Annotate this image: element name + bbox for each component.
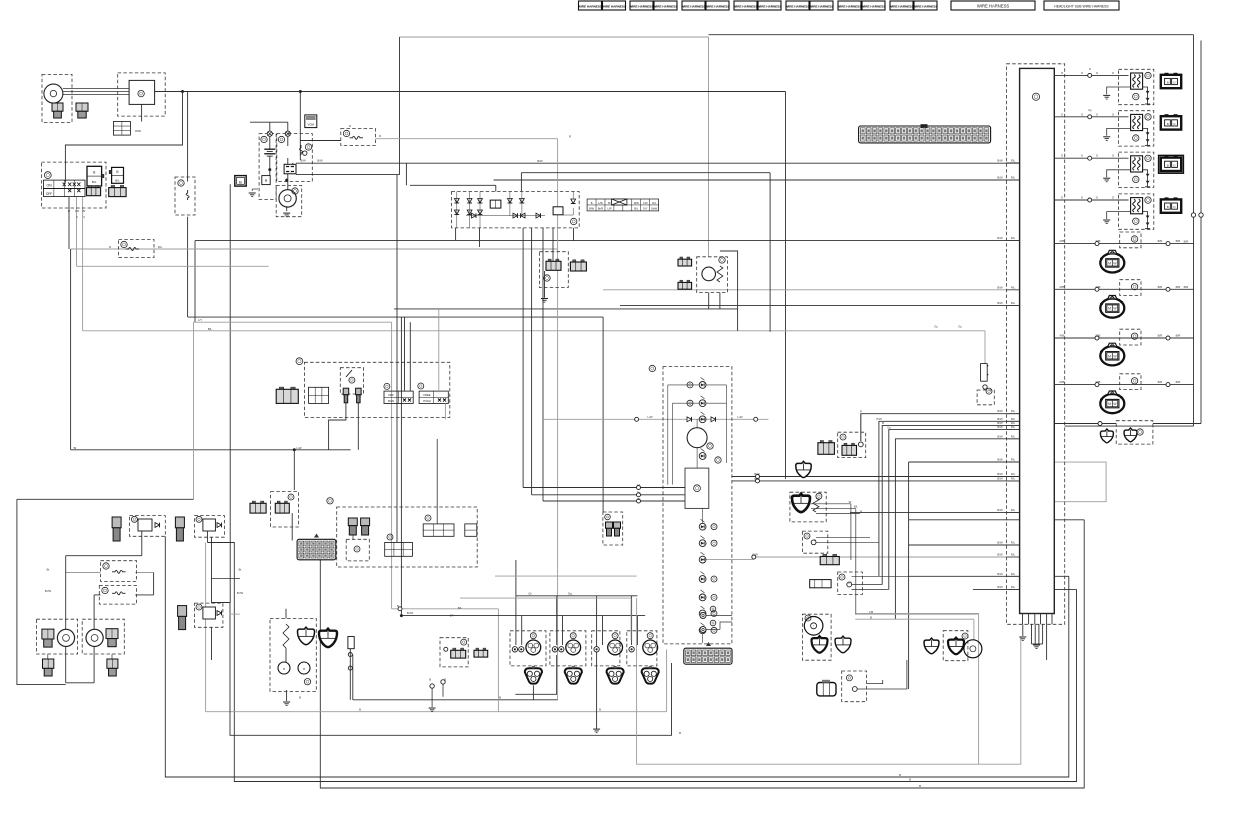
svg-text:B: B [899,773,901,777]
svg-text:L/R: L/R [75,209,79,213]
svg-text:Br/W: Br/W [45,589,52,593]
svg-text:L/W: L/W [648,415,653,419]
svg-text:B: B [860,510,862,514]
svg-text:OFF: OFF [388,393,394,397]
svg-text:R/L: R/L [158,245,163,249]
svg-text:B/W: B/W [997,585,1003,589]
svg-text:B/W: B/W [997,541,1003,545]
svg-text:B/W: B/W [997,472,1003,476]
svg-text:M: M [1108,307,1111,311]
svg-text:B/W: B/W [317,159,323,163]
svg-text:L/W: L/W [738,415,743,419]
svg-text:B/W: B/W [997,434,1003,438]
svg-text:B/R: B/R [1158,239,1163,243]
svg-text:FREE: FREE [424,393,431,397]
svg-text:Gy: Gy [1088,108,1092,112]
svg-text:WIRE HARNESS: WIRE HARNESS [785,4,809,8]
svg-text:R: R [68,209,70,213]
svg-text:R/B: R/B [1060,380,1065,384]
svg-text:B: B [679,731,681,735]
svg-text:B/R: B/R [1184,240,1189,244]
svg-text:B/L: B/L [115,179,120,183]
svg-text:B/R: B/R [1176,239,1181,243]
svg-text:R/L: R/L [1011,434,1016,438]
svg-text:WIRE HARNESS: WIRE HARNESS [653,4,677,8]
svg-text:R/L: R/L [1011,176,1016,180]
svg-text:R/L: R/L [1011,476,1016,480]
svg-text:Br/W: Br/W [407,611,414,615]
svg-text:WIRE HARNESS: WIRE HARNESS [837,4,861,8]
svg-text:B/R: B/R [1158,285,1163,289]
svg-text:B/L: B/L [854,505,859,509]
svg-text:B: B [591,201,593,205]
svg-text:B/W: B/W [589,207,594,211]
svg-text:R: R [379,134,381,138]
svg-text:WIRE HARNESS: WIRE HARNESS [861,4,885,8]
svg-text:B: B [429,678,431,682]
svg-text:L/W: L/W [598,201,603,205]
svg-text:B: B [1167,205,1169,209]
svg-text:W: W [849,500,852,504]
svg-text:G/W: G/W [752,553,758,557]
svg-text:M: M [1108,354,1111,358]
svg-text:WIRE HARNESS: WIRE HARNESS [602,4,626,8]
svg-text:B: B [116,170,118,174]
svg-text:VOM: VOM [308,123,315,127]
svg-text:R/L: R/L [1011,472,1016,476]
svg-text:WIRE HARNESS: WIRE HARNESS [629,4,653,8]
svg-text:R/B: R/B [1096,334,1101,338]
svg-text:R: R [349,124,351,128]
svg-text:Dg: Dg [637,491,641,495]
svg-text:WIRE HARNESS: WIRE HARNESS [757,4,781,8]
svg-text:ON: ON [46,184,52,188]
svg-text:OFF: OFF [46,192,52,196]
svg-text:Br: Br [74,446,77,450]
svg-text:WIRE HARNESS: WIRE HARNESS [977,4,1010,9]
svg-text:L/R: L/R [607,207,611,211]
svg-text:B: B [299,696,301,700]
svg-text:R/L: R/L [1011,572,1016,576]
svg-text:WIRE HARNESS: WIRE HARNESS [681,4,705,8]
svg-text:Gy: Gy [958,325,962,329]
svg-text:B/L: B/L [458,606,463,610]
svg-text:WIRE HARNESS: WIRE HARNESS [913,4,937,8]
svg-text:Ch: Ch [637,483,641,487]
svg-text:L/B: L/B [869,610,873,614]
svg-text:B/L: B/L [208,327,213,331]
svg-text:R/B: R/B [1060,334,1065,338]
svg-text:M: M [1108,402,1111,406]
svg-text:WIRE HARNESS: WIRE HARNESS [705,4,729,8]
svg-text:WIRE HARNESS: WIRE HARNESS [889,4,913,8]
svg-text:R: R [109,245,111,249]
svg-text:B: B [870,615,872,619]
svg-text:B: B [397,604,399,608]
svg-text:R/W: R/W [634,201,640,205]
svg-text:G/Y: G/Y [643,207,648,211]
svg-text:B/W: B/W [997,158,1003,162]
svg-text:HEADLIGHT SUB WIRE HARNESS: HEADLIGHT SUB WIRE HARNESS [1054,5,1109,9]
svg-text:B: B [1167,80,1169,84]
svg-text:Gy: Gy [887,425,891,429]
svg-text:WIRE HARNESS: WIRE HARNESS [578,4,602,8]
svg-text:L/Y: L/Y [848,581,852,585]
svg-text:R/B: R/B [1096,239,1101,243]
svg-text:R/L: R/L [1011,285,1016,289]
svg-text:B/W: B/W [997,285,1003,289]
svg-text:R/L: R/L [1011,585,1016,589]
svg-text:Sb/W: Sb/W [651,207,658,211]
svg-text:Br: Br [608,201,611,205]
svg-text:M: M [1108,262,1111,266]
svg-text:Br/R: Br/R [598,207,603,211]
svg-text:B: B [1167,163,1169,167]
svg-text:WIRE HARNESS: WIRE HARNESS [733,4,757,8]
svg-text:B: B [1167,122,1169,126]
svg-text:B/W: B/W [537,159,543,163]
svg-text:B/R: B/R [1158,334,1163,338]
svg-text:R/L: R/L [1011,409,1016,413]
svg-text:x: x [303,666,305,671]
svg-text:R/B: R/B [1060,285,1065,289]
svg-text:Gy: Gy [934,325,938,329]
svg-text:B/R: B/R [1176,334,1181,338]
svg-text:R/B: R/B [1096,380,1101,384]
svg-text:Br: Br [47,568,50,572]
svg-text:B/W: B/W [997,458,1003,462]
svg-text:B/L: B/L [92,180,97,184]
svg-text:B/R: B/R [1176,380,1181,384]
svg-text:B/L: B/L [634,207,638,211]
svg-text:R/B: R/B [1060,239,1065,243]
svg-text:R/L: R/L [1011,425,1016,429]
svg-text:P: P [860,410,862,414]
svg-text:B/W: B/W [997,409,1003,413]
svg-text:B: B [909,778,911,782]
svg-text:PUSH: PUSH [423,399,430,403]
svg-text:B/R: B/R [1176,285,1181,289]
svg-text:B/W: B/W [997,301,1003,305]
svg-text:B/W: B/W [997,176,1003,180]
svg-text:B/W: B/W [997,236,1003,240]
svg-text:B/W: B/W [997,508,1003,512]
svg-text:B: B [919,784,921,788]
svg-text:R/L: R/L [1011,158,1016,162]
svg-text:L/W: L/W [643,201,648,205]
svg-text:Ch: Ch [528,592,532,596]
svg-text:B: B [599,708,601,712]
svg-text:R/L: R/L [652,201,657,205]
svg-text:Br: Br [83,209,86,213]
svg-text:WIRE HARNESS: WIRE HARNESS [809,4,833,8]
svg-text:W/R: W/R [754,477,759,481]
svg-text:R/L: R/L [1011,508,1016,512]
svg-text:B: B [638,497,640,501]
svg-text:Dg: Dg [568,592,572,596]
svg-text:Br: Br [239,568,242,572]
svg-text:B: B [499,696,501,700]
svg-text:B/R: B/R [1184,285,1189,289]
svg-text:B: B [93,171,95,175]
svg-text:x: x [283,666,285,671]
svg-text:B/Y: B/Y [450,614,455,618]
svg-text:B/R: B/R [1158,380,1163,384]
svg-text:R/L: R/L [1011,236,1016,240]
svg-text:B/W: B/W [997,425,1003,429]
svg-text:B: B [359,708,361,712]
svg-text:R/L: R/L [1011,541,1016,545]
svg-text:B/W: B/W [754,472,760,476]
svg-text:L/W: L/W [297,446,302,450]
svg-text:R/B: R/B [1096,285,1101,289]
svg-text:B: B [882,421,884,425]
svg-text:G: G [814,538,816,542]
svg-text:B/W: B/W [997,476,1003,480]
svg-text:B/W: B/W [300,159,306,163]
svg-text:R/L: R/L [1011,553,1016,557]
svg-text:R: R [569,135,571,139]
svg-text:B/W: B/W [997,572,1003,576]
svg-text:L/Y: L/Y [198,318,202,322]
svg-text:RUN: RUN [388,399,394,403]
svg-text:R/L: R/L [1011,301,1016,305]
svg-text:B: B [444,678,446,682]
svg-text:B/W: B/W [997,553,1003,557]
svg-text:B: B [239,180,242,185]
svg-text:R/L: R/L [1011,458,1016,462]
svg-text:Br/W: Br/W [237,591,244,595]
